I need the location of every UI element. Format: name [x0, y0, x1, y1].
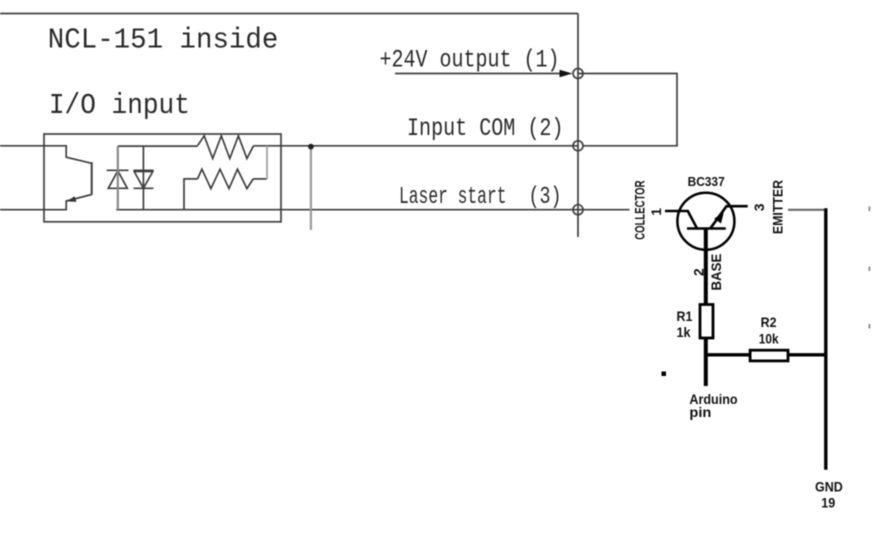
- svg-text:R1: R1: [677, 308, 693, 324]
- svg-text:10k: 10k: [759, 331, 779, 347]
- svg-text:+24V output (1): +24V output (1): [380, 46, 560, 75]
- svg-text:1: 1: [648, 208, 664, 216]
- svg-text:Laser start: Laser start: [399, 184, 507, 211]
- svg-text:Input COM (2): Input COM (2): [407, 114, 564, 143]
- svg-text:R2: R2: [761, 314, 777, 330]
- svg-text:COLLECTOR: COLLECTOR: [632, 180, 648, 239]
- svg-text:NCL-151 inside: NCL-151 inside: [48, 24, 278, 57]
- svg-text:pin: pin: [689, 404, 711, 420]
- svg-text:1k: 1k: [677, 324, 691, 340]
- svg-text:EMITTER: EMITTER: [769, 180, 785, 234]
- svg-text:I/O input: I/O input: [49, 89, 190, 122]
- svg-text:BASE: BASE: [708, 254, 724, 291]
- svg-text:3: 3: [751, 203, 767, 211]
- svg-text:2: 2: [691, 268, 707, 276]
- svg-text:GND: GND: [815, 479, 843, 495]
- svg-text:(3): (3): [529, 184, 562, 211]
- svg-text:19: 19: [821, 495, 835, 511]
- svg-text:BC337: BC337: [688, 174, 725, 189]
